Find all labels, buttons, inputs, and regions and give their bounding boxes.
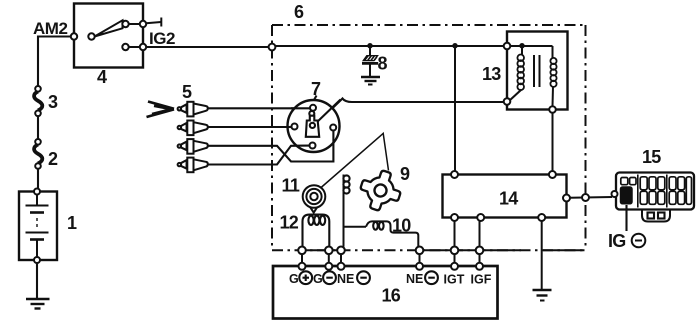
svg-text:IGT: IGT [444,273,465,287]
svg-text:7: 7 [311,79,321,99]
svg-text:6: 6 [294,2,304,22]
ground battery [26,263,50,309]
wire G- drop [328,254,330,263]
signal generator 11 [282,176,326,213]
svg-text:16: 16 [382,286,401,306]
svg-text:IG: IG [608,231,626,251]
svg-text:IGF: IGF [471,273,492,287]
svg-text:AM2: AM2 [33,19,67,38]
plug wire 3 (crosses to right contact) [208,131,333,162]
wire NE- drop [340,254,342,263]
plug wire 1 [208,107,310,109]
pickup coil 10 [344,216,419,247]
wire IG2 to distributor boundary [146,46,269,48]
wire controller to check connector [570,196,612,199]
wire G+ drop [301,254,303,263]
wire fuse to battery [37,169,39,192]
label IG minus [608,231,645,251]
condenser 8 [361,46,388,85]
svg-text:1: 1 [67,213,77,233]
wire B+ bus [276,45,505,47]
timing rotor 9 [356,166,406,216]
wire down to controller 14 [454,46,456,172]
svg-text:NE: NE [406,272,423,286]
plug wire 2 [208,126,292,128]
wire IG- from connector pin [625,205,627,231]
svg-text:12: 12 [280,213,299,233]
ignition switch 4 [71,4,146,88]
svg-text:11: 11 [282,176,300,196]
fuse 2 [34,139,58,169]
battery 1 [19,189,77,264]
svg-text:G: G [313,272,323,286]
distributor assembly boundary 6 [272,25,586,250]
boundary connector circle IG2 [269,44,276,51]
check connector 15 [612,147,695,222]
boundary connector circles [298,247,306,255]
plug wire 4 (crosses to bottom contact) [208,146,310,165]
svg-text:2: 2 [48,149,58,169]
svg-text:4: 4 [97,67,107,87]
igniter/dwell controller 14 [443,171,571,221]
spark plugs 5 (four) [178,102,208,172]
V linkage [321,133,389,188]
svg-text:9: 9 [400,164,410,184]
NE pickup vertical coil [343,175,349,247]
spark plug arrow [147,102,175,118]
igniter 16 [273,263,498,319]
junction dot condenser [367,43,372,48]
ignition coil 13 [482,32,568,113]
svg-text:13: 13 [482,64,501,84]
ground right [533,290,552,301]
wire coil to controller 14 [552,113,554,172]
fusible link 3 [34,86,58,116]
wire AM2 to fusible link [38,37,74,87]
boundary connector circle right [582,194,589,201]
wire controller ground [541,221,543,289]
svg-text:10: 10 [392,216,411,236]
solid wire overlays on boundary bottom [302,249,341,251]
svg-text:15: 15 [642,147,661,167]
svg-text:8: 8 [378,54,388,74]
svg-text:14: 14 [499,189,518,209]
svg-text:G: G [289,272,299,286]
wire NE drop [419,254,421,263]
stub terminal top right of switch [146,18,161,27]
svg-text:NE: NE [337,272,354,286]
wire IGT [454,221,456,263]
wire link to fuse [37,116,39,139]
distributor 7 [288,79,341,152]
svg-text:5: 5 [182,82,192,102]
pickup coil 12 [280,213,330,248]
wire IGF [479,221,481,263]
svg-text:3: 3 [48,92,58,112]
junction dot to controller 14 [452,43,457,48]
wire coil secondary to rotor [315,99,504,126]
svg-text:IG2: IG2 [149,29,175,48]
